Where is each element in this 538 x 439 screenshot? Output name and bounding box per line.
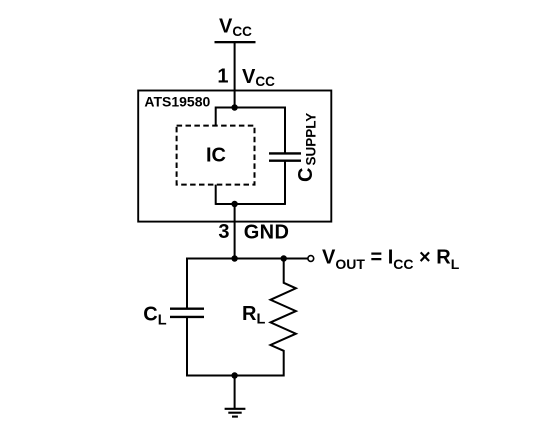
wire from C supply to bottom bus [284,161,286,205]
IC dashed box [177,126,255,185]
wire bottom bus inside box [216,203,285,205]
wire output node horizontal [187,258,308,260]
wire from VCC rail to pin 1 and into box [234,42,236,108]
svg-text:IC: IC [206,145,226,167]
terminal VOUT open circle [308,256,314,262]
wire from bottom bus through pin 3 to output node [234,204,236,259]
wire top bus inside box [216,107,285,109]
wire CL branch bottom [186,317,188,377]
wire from top bus down to C supply [284,107,286,154]
resistor RL zigzag [271,258,296,377]
node junction dot GND net [231,255,238,262]
ground symbol [225,409,246,417]
svg-text:GND: GND [244,221,290,243]
node junction dot bottom bus [231,201,238,208]
wire from IC box bottom to bottom bus [215,185,217,205]
device box ATS19580 [138,91,331,222]
wire from top bus down to IC box [215,107,217,127]
power symbol VCC rail bar [215,41,256,43]
svg-text:1: 1 [217,66,228,88]
wire CL branch top [186,258,188,309]
wire bottom bus of load network [187,375,284,377]
node junction dot ground [231,372,238,379]
capacitor C SUPPLY plates [269,152,301,154]
node junction dot top [231,104,238,111]
capacitor CL plates [170,308,204,310]
svg-text:ATS19580: ATS19580 [144,94,210,110]
node junction dot RL top [280,255,287,262]
svg-text:3: 3 [218,221,229,243]
ground stem wire [234,376,236,409]
